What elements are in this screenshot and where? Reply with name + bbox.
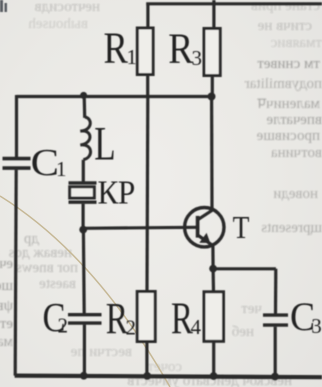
resistor R3 bbox=[204, 29, 220, 76]
svg-text:подувmilitar: подувmilitar bbox=[245, 76, 322, 92]
svg-text:стичв не: стичв не bbox=[257, 18, 312, 34]
wire bias column bbox=[145, 97, 149, 292]
svg-text:4: 4 bbox=[191, 315, 202, 339]
wire emitter drop bbox=[211, 245, 214, 269]
wire R1 top stub bbox=[146, 3, 149, 29]
svg-text:3: 3 bbox=[192, 46, 203, 70]
node emitter junction bbox=[209, 265, 217, 273]
label C2 bbox=[43, 295, 69, 340]
resistor R4 bbox=[204, 292, 224, 342]
svg-text:выhouseh: выhouseh bbox=[28, 16, 88, 32]
wire R1 bottom lead bbox=[146, 75, 149, 99]
svg-text:ет: ет bbox=[0, 316, 13, 332]
svg-text:маленичप: маленичप bbox=[257, 96, 320, 112]
svg-text:стане прив: стане прив bbox=[251, 0, 320, 14]
svg-text:L: L bbox=[94, 118, 115, 171]
svg-text:2: 2 bbox=[58, 313, 69, 337]
svg-text:неб: неб bbox=[231, 324, 254, 340]
node base junction bbox=[79, 226, 87, 234]
wire C2 column bbox=[82, 230, 86, 314]
top rail wire bbox=[146, 2, 322, 5]
wire C3 top drop bbox=[274, 269, 277, 314]
svg-text:тм снивет: тм снивет bbox=[257, 56, 320, 72]
svg-text:вотчина: вотчина bbox=[271, 145, 322, 161]
label R3 bbox=[168, 25, 202, 73]
wire C2 bottom lead bbox=[83, 325, 86, 377]
wire R3 top stub bbox=[212, 0, 215, 29]
svg-text:тмаявис: тмаявис bbox=[270, 35, 322, 51]
svg-text:2: 2 bbox=[126, 316, 137, 340]
svg-text:пor вnews: пor вnews bbox=[16, 260, 78, 276]
svg-text:ше: ше bbox=[0, 278, 13, 294]
wire R2 bottom lead bbox=[145, 342, 148, 378]
svg-text:R: R bbox=[168, 25, 193, 73]
svg-text:1: 1 bbox=[56, 157, 67, 181]
scan curve artifact bbox=[0, 196, 170, 387]
svg-text:впечатле: впечатле bbox=[266, 112, 322, 128]
node R4-rail bbox=[210, 372, 218, 380]
label R1 bbox=[103, 23, 137, 72]
svg-text:чет: чет bbox=[241, 301, 262, 317]
svg-text:сочет: сочет bbox=[147, 359, 182, 375]
resistor R2 bbox=[137, 292, 155, 342]
svg-text:КР: КР bbox=[98, 174, 135, 211]
svg-text:C: C bbox=[31, 141, 59, 183]
node L-branch junction bbox=[80, 92, 87, 99]
svg-text:просивше: просивше bbox=[256, 128, 320, 144]
label R4 bbox=[171, 294, 201, 344]
wire collector column bbox=[210, 97, 214, 210]
svg-text:ма: ма bbox=[0, 334, 13, 350]
svg-text:ψв: ψв bbox=[0, 298, 13, 314]
svg-text:ваeste: ваeste bbox=[39, 276, 76, 292]
wire mid rail bbox=[17, 95, 213, 98]
node C3-rail bbox=[271, 373, 279, 381]
node R2-rail bbox=[143, 372, 151, 380]
capacitor C1 bbox=[3, 157, 31, 161]
wire L top stub bbox=[83, 97, 87, 118]
wire emitter column bbox=[212, 269, 216, 292]
wire C3 bottom lead bbox=[274, 327, 277, 377]
capacitor C3 bbox=[263, 313, 288, 316]
svg-text:еч: еч bbox=[0, 256, 13, 272]
svg-text:3: 3 bbox=[311, 314, 322, 338]
svg-text:вестчи пе: вестчи пе bbox=[70, 344, 132, 360]
wire left drop upper bbox=[15, 95, 18, 157]
svg-text:новеди: новеди bbox=[273, 186, 318, 202]
wire left drop lower bbox=[15, 170, 16, 376]
node collector junction bbox=[208, 93, 216, 101]
label C1 bbox=[31, 141, 67, 183]
corner print fragment bbox=[0, 0, 7, 12]
wire L to crystal bbox=[82, 160, 85, 182]
bottom rail wire bbox=[15, 376, 322, 378]
svg-text:R: R bbox=[103, 23, 127, 72]
node C2-rail bbox=[80, 372, 88, 380]
resistor R1 bbox=[137, 28, 153, 75]
svg-text:неваж дos: неваж дos bbox=[9, 245, 72, 261]
svg-text:нечтосидв: нечтосидв bbox=[35, 0, 101, 15]
svg-text:1: 1 bbox=[127, 45, 138, 69]
label R2 bbox=[106, 295, 136, 343]
inductor L bbox=[80, 117, 90, 160]
wire R3 bottom lead bbox=[211, 76, 214, 97]
crystal KP bbox=[69, 181, 97, 184]
wire R4 bottom lead bbox=[212, 341, 215, 377]
wire emitter to C3 bbox=[213, 267, 276, 270]
label C3 bbox=[290, 295, 322, 339]
wire crystal to junction bbox=[81, 204, 84, 230]
wire base bbox=[83, 227, 196, 228]
capacitor C2 bbox=[68, 313, 102, 316]
transistor T bbox=[185, 208, 224, 247]
svg-text:щpresents: щpresents bbox=[261, 220, 322, 236]
svg-text:Т: Т bbox=[233, 210, 250, 245]
